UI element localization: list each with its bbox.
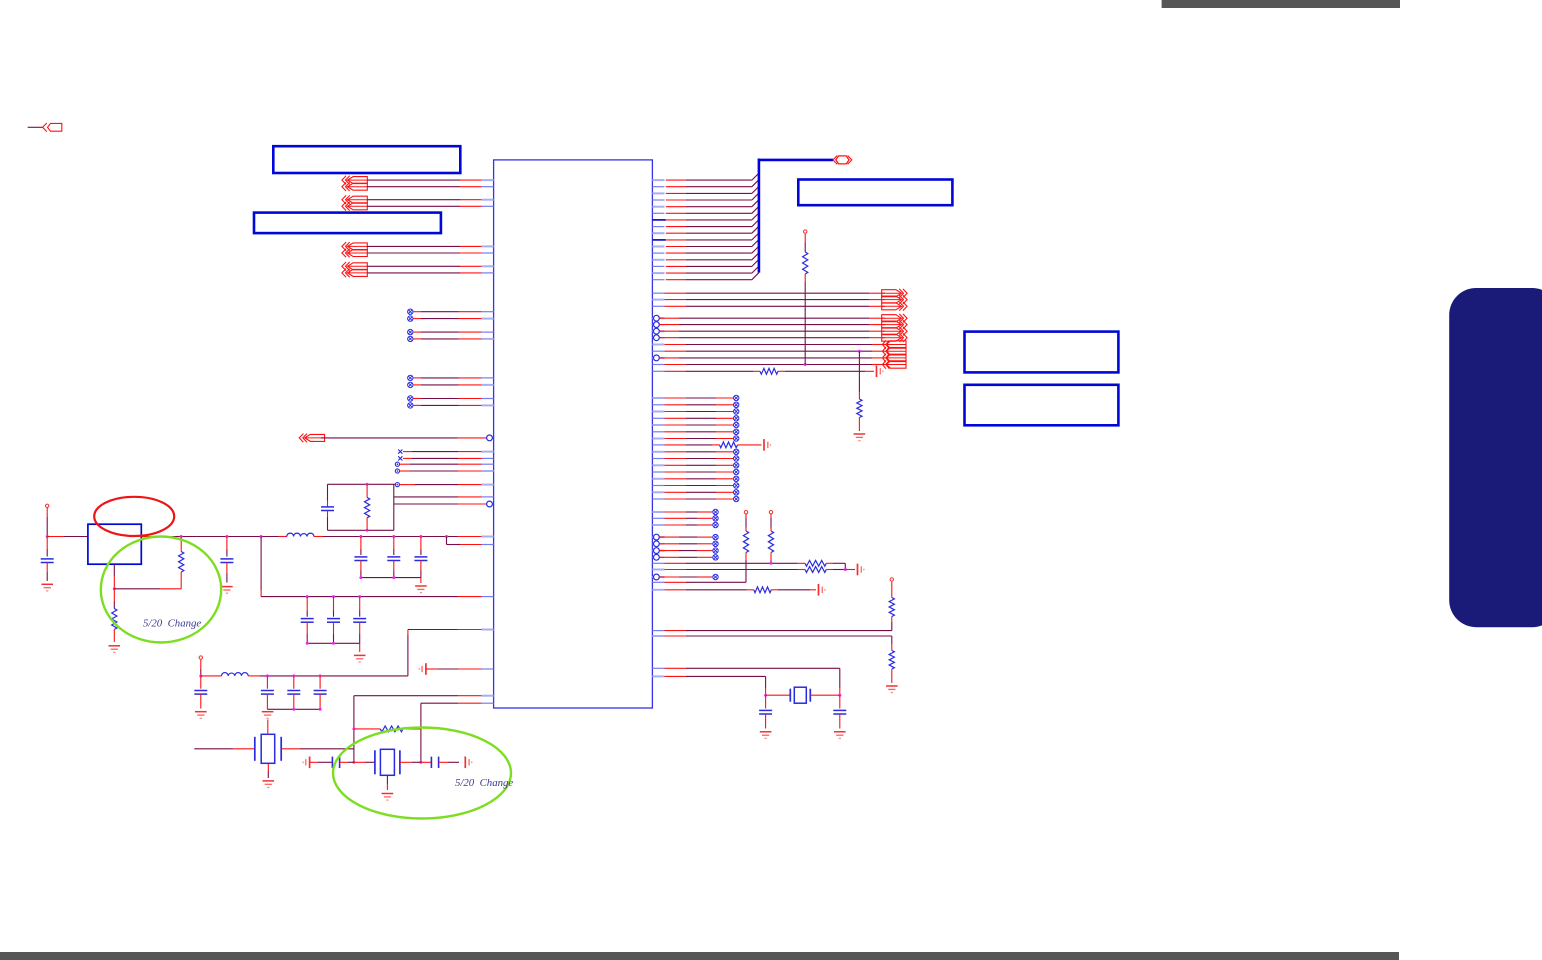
svg-text:5/20 Change: 5/20 Change <box>455 777 513 789</box>
svg-text:5/20 Change: 5/20 Change <box>143 618 201 630</box>
